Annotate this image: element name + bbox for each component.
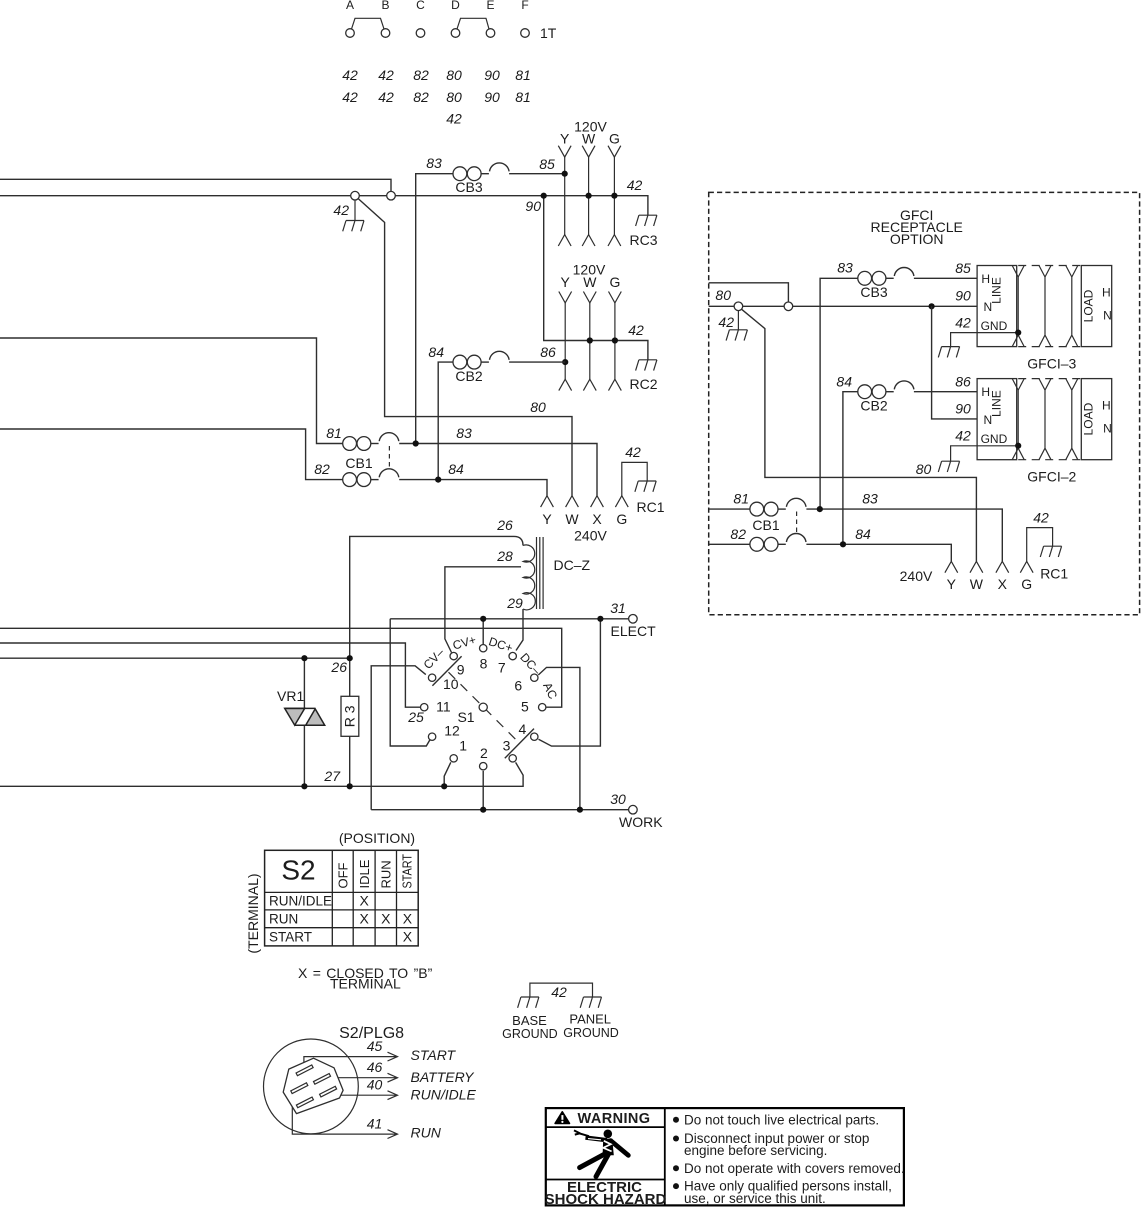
junction 86-Y RC2 bbox=[562, 359, 568, 365]
svg-text:RC1: RC1 bbox=[1040, 566, 1068, 582]
svg-text:42: 42 bbox=[718, 314, 734, 330]
ground tie 42 bbox=[502, 983, 619, 1041]
GFCI-3 receptacle block bbox=[977, 266, 1112, 347]
wire 28 tap bbox=[445, 567, 521, 653]
svg-text:E: E bbox=[486, 0, 494, 12]
svg-text:86: 86 bbox=[540, 344, 556, 360]
svg-text:C: C bbox=[416, 0, 425, 12]
svg-text:N: N bbox=[983, 413, 992, 427]
wire 31 ELECT bus bbox=[390, 618, 629, 620]
connector S2/PLG8 bbox=[264, 1025, 477, 1140]
shock hazard figure bbox=[604, 1130, 613, 1139]
svg-text:CB3: CB3 bbox=[455, 179, 482, 195]
svg-text:5: 5 bbox=[521, 699, 529, 715]
junction 83 bbox=[413, 440, 419, 446]
svg-text:RUN: RUN bbox=[269, 912, 298, 927]
S1 pin 8 bbox=[480, 645, 487, 652]
svg-text:Y: Y bbox=[947, 576, 957, 592]
ground RC1 (GFCI) bbox=[1040, 546, 1061, 557]
wire 90 horizontal from left edge bbox=[0, 196, 648, 216]
circuit breaker CB3 (GFCI) bbox=[858, 268, 914, 286]
svg-text:12: 12 bbox=[444, 722, 460, 738]
svg-text:W: W bbox=[582, 131, 596, 147]
svg-text:(POSITION): (POSITION) bbox=[339, 830, 415, 846]
circuit breaker CB1 pole B (GFCI) bbox=[750, 534, 806, 552]
svg-text:GROUND: GROUND bbox=[502, 1027, 558, 1041]
S1 linkage dashed bbox=[449, 672, 519, 742]
CB1 tie bar dashed (GFCI) bbox=[796, 512, 798, 534]
ground RC2 bbox=[636, 360, 657, 371]
svg-text:R 3: R 3 bbox=[342, 705, 358, 727]
wire 26 from left edge bbox=[0, 657, 350, 659]
wire 27 from left edge bbox=[0, 762, 523, 786]
svg-text:F: F bbox=[521, 0, 528, 12]
wire 86 bbox=[509, 361, 565, 363]
svg-text:H: H bbox=[1102, 286, 1111, 300]
svg-text:TERMINAL: TERMINAL bbox=[330, 976, 401, 992]
svg-text:45: 45 bbox=[367, 1038, 383, 1054]
wire 83 riser bbox=[416, 174, 453, 444]
panel ground bbox=[580, 997, 601, 1008]
wire 80 diagonal drop bbox=[358, 199, 572, 496]
wire feeder upper (GFCI) bbox=[709, 283, 789, 302]
wire 86 (GFCI) bbox=[914, 391, 977, 393]
svg-text:RC1: RC1 bbox=[637, 499, 665, 515]
junction 84 bbox=[435, 477, 441, 483]
terminal strip 1T bbox=[342, 0, 557, 127]
svg-text:1T: 1T bbox=[540, 25, 557, 41]
svg-text:CB1: CB1 bbox=[752, 517, 779, 533]
svg-text:1: 1 bbox=[459, 738, 467, 754]
ground RC3 bbox=[636, 215, 657, 226]
junction 90-W RC2 bbox=[587, 337, 593, 343]
circuit breaker CB2 bbox=[453, 351, 509, 369]
warning triangle bbox=[555, 1112, 569, 1124]
svg-text:GND: GND bbox=[981, 432, 1008, 446]
S1 pin 2 bbox=[480, 763, 487, 770]
wire 29 to pin 7 bbox=[516, 609, 523, 651]
svg-text:X: X bbox=[592, 511, 602, 527]
svg-text:90: 90 bbox=[484, 67, 500, 83]
wire 30 WORK bus bbox=[371, 809, 629, 811]
svg-text:11: 11 bbox=[436, 699, 451, 715]
svg-text:LOAD: LOAD bbox=[1082, 402, 1096, 435]
svg-text:42: 42 bbox=[378, 89, 394, 105]
svg-text:Do not operate with covers rem: Do not operate with covers removed. bbox=[684, 1161, 905, 1176]
S1 pin 7 bbox=[509, 652, 516, 659]
S1 pin 5 bbox=[539, 704, 546, 711]
S1 pin 11 bbox=[421, 704, 428, 711]
svg-text:use, or service this unit.: use, or service this unit. bbox=[684, 1191, 826, 1206]
svg-text:CB2: CB2 bbox=[860, 398, 887, 414]
svg-text:81: 81 bbox=[515, 67, 531, 83]
ground (GFCI 42) bbox=[726, 330, 747, 341]
circuit breaker CB1 pole B bbox=[343, 469, 399, 487]
svg-text:START: START bbox=[411, 1047, 457, 1063]
svg-text:42: 42 bbox=[378, 67, 394, 83]
circuit breaker CB2 (GFCI) bbox=[858, 381, 914, 399]
svg-text:25: 25 bbox=[407, 709, 424, 725]
wire 25 to pin 11 bbox=[0, 643, 421, 707]
svg-text:X: X bbox=[360, 911, 370, 927]
ground (42 near connector) bbox=[343, 221, 364, 232]
svg-text:B: B bbox=[381, 0, 389, 12]
circuit breaker CB1 pole A (GFCI) bbox=[750, 498, 806, 516]
svg-text:80: 80 bbox=[715, 287, 731, 303]
svg-text:N: N bbox=[983, 300, 992, 314]
svg-text:40: 40 bbox=[367, 1077, 383, 1093]
wire 42 G to ground bbox=[622, 462, 647, 495]
svg-text:42: 42 bbox=[1033, 510, 1049, 526]
RC3 contact W bbox=[588, 157, 590, 235]
junction 31/pin8 bbox=[480, 616, 486, 622]
wire pin 2 drop bbox=[482, 771, 484, 810]
svg-text:SHOCK HAZARD: SHOCK HAZARD bbox=[545, 1191, 667, 1208]
svg-text:42: 42 bbox=[551, 984, 567, 1000]
junction WORK/pin6 bbox=[577, 807, 583, 813]
svg-text:G: G bbox=[616, 511, 627, 527]
svg-text:GND: GND bbox=[981, 319, 1008, 333]
svg-text:engine before servicing.: engine before servicing. bbox=[684, 1143, 827, 1158]
svg-text:2: 2 bbox=[480, 745, 488, 761]
junction 90 corner bbox=[541, 193, 547, 199]
svg-text:82: 82 bbox=[314, 461, 330, 477]
svg-text:83: 83 bbox=[862, 491, 878, 507]
junction 90-G bbox=[611, 193, 617, 199]
svg-text:X: X bbox=[381, 911, 391, 927]
wire 45 bbox=[304, 1052, 398, 1067]
svg-text:DC–Z: DC–Z bbox=[554, 557, 591, 573]
wire 84 from CB1 bbox=[399, 480, 547, 496]
receptacle RC1 (GFCI) bbox=[900, 510, 1069, 593]
svg-text:27: 27 bbox=[323, 768, 341, 784]
svg-text:VR1: VR1 bbox=[277, 688, 304, 704]
S1 pin 9 bbox=[450, 652, 457, 659]
circuit breaker CB1 pole A bbox=[343, 433, 399, 451]
svg-text:X: X bbox=[998, 576, 1008, 592]
warning bullet list bbox=[673, 1112, 905, 1206]
RC3 contact Y bbox=[564, 157, 566, 235]
varistor VR1 bbox=[277, 655, 325, 789]
svg-text:LOAD: LOAD bbox=[1082, 289, 1096, 322]
svg-text:80: 80 bbox=[446, 67, 462, 83]
svg-text:30: 30 bbox=[610, 791, 626, 807]
RC1 contact G bbox=[615, 496, 628, 507]
svg-text:84: 84 bbox=[448, 461, 464, 477]
receptacle RC3 bbox=[558, 119, 657, 249]
svg-text:9: 9 bbox=[457, 661, 465, 677]
svg-text:4: 4 bbox=[519, 721, 527, 737]
svg-text:GROUND: GROUND bbox=[563, 1026, 619, 1040]
svg-text:W: W bbox=[970, 576, 984, 592]
svg-text:42: 42 bbox=[627, 177, 643, 193]
S1 contact bar 3-4 bbox=[505, 729, 534, 759]
svg-text:RUN: RUN bbox=[411, 1124, 442, 1140]
svg-text:G: G bbox=[609, 274, 620, 290]
svg-text:H: H bbox=[1102, 399, 1111, 413]
svg-text:85: 85 bbox=[539, 156, 555, 172]
wire to pin 5 bbox=[0, 628, 562, 707]
terminal 31 ELECT bbox=[629, 615, 638, 624]
junction 90-W bbox=[586, 193, 592, 199]
wire numbers row 2 bbox=[342, 89, 531, 105]
PLG8 body bbox=[283, 1058, 343, 1113]
svg-text:42: 42 bbox=[446, 111, 462, 127]
S1 pin 1 bbox=[450, 755, 457, 762]
S1 pin 10 bbox=[428, 674, 435, 681]
svg-text:RC3: RC3 bbox=[630, 232, 658, 248]
wire 80 drop to RC1 W (GFCI) bbox=[742, 309, 977, 561]
svg-text:(TERMINAL): (TERMINAL) bbox=[245, 873, 261, 953]
warning label bbox=[545, 1108, 905, 1208]
svg-text:42: 42 bbox=[333, 202, 349, 218]
svg-text:Y: Y bbox=[542, 511, 552, 527]
svg-text:BASE: BASE bbox=[512, 1013, 547, 1028]
svg-text:46: 46 bbox=[367, 1059, 383, 1075]
S1 pin 4 bbox=[531, 733, 538, 740]
S1 contact bar 9-10 bbox=[432, 656, 461, 686]
DC-Z core bbox=[537, 537, 544, 609]
svg-text:Do not touch live electrical p: Do not touch live electrical parts. bbox=[684, 1112, 879, 1127]
wire 42 G to ground (GFCI RC1) bbox=[1027, 528, 1053, 562]
svg-text:84: 84 bbox=[428, 344, 444, 360]
wire to pin 12 bbox=[390, 619, 430, 746]
svg-text:7: 7 bbox=[498, 660, 506, 676]
RC1 contact Y bbox=[541, 496, 554, 507]
svg-text:10: 10 bbox=[443, 676, 459, 692]
svg-text:42: 42 bbox=[955, 428, 971, 444]
svg-text:G: G bbox=[609, 131, 620, 147]
svg-text:OPTION: OPTION bbox=[890, 231, 944, 247]
svg-text:CB3: CB3 bbox=[860, 284, 887, 300]
svg-text:D: D bbox=[451, 0, 460, 12]
terminal 30 WORK bbox=[629, 805, 638, 814]
wire 26 riser to DC-Z bbox=[350, 536, 523, 658]
connector circle left (GFCI) bbox=[734, 302, 743, 311]
GFCI-2 receptacle block bbox=[977, 379, 1112, 460]
svg-text:Y: Y bbox=[561, 274, 571, 290]
wire 84 (GFCI) bbox=[806, 544, 951, 561]
svg-text:RC2: RC2 bbox=[630, 376, 658, 392]
svg-text:CB1: CB1 bbox=[345, 455, 372, 471]
wire 46 bbox=[330, 1073, 397, 1082]
svg-text:START: START bbox=[269, 930, 312, 945]
wire 84 riser to CB2 (GFCI) bbox=[843, 392, 858, 545]
svg-text:RUN/IDLE: RUN/IDLE bbox=[411, 1087, 477, 1103]
receptacle RC2 bbox=[559, 262, 658, 393]
RC1 contact W bbox=[566, 496, 579, 507]
svg-text:41: 41 bbox=[367, 1116, 383, 1132]
svg-text:82: 82 bbox=[730, 526, 746, 542]
svg-text:90: 90 bbox=[955, 401, 971, 417]
svg-text:83: 83 bbox=[426, 155, 442, 171]
wire pin 6 to WORK bbox=[538, 667, 580, 809]
svg-text:81: 81 bbox=[733, 491, 749, 507]
wire pin 1 drop bbox=[444, 762, 451, 786]
S1 pivot bbox=[479, 703, 487, 711]
svg-text:BATTERY: BATTERY bbox=[411, 1069, 476, 1085]
svg-text:83: 83 bbox=[456, 425, 472, 441]
S1 pin 3 bbox=[509, 755, 516, 762]
svg-text:GFCI–3: GFCI–3 bbox=[1027, 356, 1076, 372]
GFCI receptacle option box bbox=[709, 192, 1140, 614]
svg-text:42: 42 bbox=[625, 444, 641, 460]
junction 31/pin4 bbox=[597, 616, 603, 622]
connector circle node left bbox=[351, 191, 360, 200]
wire 82 (GFCI) bbox=[709, 543, 750, 545]
svg-text:85: 85 bbox=[955, 260, 971, 276]
svg-text:W: W bbox=[583, 274, 597, 290]
wire 90 drop to GFCI-2 bbox=[932, 306, 978, 419]
svg-text:80: 80 bbox=[446, 89, 462, 105]
junction 85-Y bbox=[562, 171, 568, 177]
svg-text:28: 28 bbox=[496, 548, 513, 564]
wire 83 (GFCI) bbox=[806, 509, 1002, 561]
svg-text:START: START bbox=[400, 854, 415, 889]
ground GFCI-3 bbox=[938, 347, 959, 358]
ground GFCI-2 bbox=[938, 461, 959, 472]
svg-text:80: 80 bbox=[916, 461, 932, 477]
connector circle node right bbox=[387, 191, 396, 200]
wire top feeder upper bbox=[0, 179, 391, 192]
svg-text:S1: S1 bbox=[457, 709, 474, 725]
junction 27/pin1 bbox=[441, 783, 447, 789]
RC2 contact Y bbox=[564, 303, 566, 379]
svg-text:42: 42 bbox=[342, 89, 358, 105]
svg-text:42: 42 bbox=[955, 315, 971, 331]
svg-text:IDLE: IDLE bbox=[357, 859, 372, 888]
svg-text:26: 26 bbox=[496, 517, 513, 533]
wire pin 8 drop bbox=[482, 619, 484, 645]
resistor R3 bbox=[341, 655, 359, 789]
RC1 contact X bbox=[591, 496, 604, 507]
wire 81 (GFCI) bbox=[709, 508, 750, 510]
svg-text:31: 31 bbox=[610, 600, 626, 616]
ground RC1 bbox=[635, 481, 656, 492]
svg-text:80: 80 bbox=[530, 399, 546, 415]
svg-text:42: 42 bbox=[342, 67, 358, 83]
svg-text:240V: 240V bbox=[574, 528, 607, 544]
svg-text:6: 6 bbox=[514, 677, 522, 693]
wire numbers row 1 bbox=[342, 67, 531, 83]
svg-text:N: N bbox=[1103, 422, 1112, 436]
svg-text:Y: Y bbox=[560, 131, 570, 147]
wire to pin 10 bbox=[371, 666, 426, 810]
connector circle right (GFCI) bbox=[784, 302, 793, 311]
wire 85 bbox=[509, 173, 565, 175]
wire 83 from CB1 bbox=[399, 444, 597, 496]
svg-text:X: X bbox=[403, 929, 413, 945]
S1 pin 12 bbox=[428, 733, 435, 740]
wire to pin 4 bbox=[539, 619, 601, 746]
svg-text:81: 81 bbox=[515, 89, 531, 105]
svg-text:WORK: WORK bbox=[619, 814, 663, 830]
wire 82 from left edge bbox=[0, 429, 343, 480]
svg-text:84: 84 bbox=[855, 526, 871, 542]
junction 80/N bbox=[929, 303, 935, 309]
wire 42 stub to ground bbox=[354, 200, 356, 221]
svg-text:240V: 240V bbox=[900, 568, 933, 584]
svg-text:90: 90 bbox=[484, 89, 500, 105]
svg-text:90: 90 bbox=[955, 288, 971, 304]
wire 40 bbox=[336, 1091, 397, 1100]
jumper D-E bbox=[457, 18, 489, 29]
svg-text:42: 42 bbox=[628, 322, 644, 338]
svg-text:ELECT: ELECT bbox=[611, 623, 657, 639]
svg-text:3: 3 bbox=[503, 738, 511, 754]
svg-text:A: A bbox=[346, 0, 354, 12]
svg-text:S2: S2 bbox=[281, 855, 315, 886]
svg-text:W: W bbox=[565, 511, 579, 527]
svg-text:81: 81 bbox=[326, 425, 342, 441]
svg-text:RUN: RUN bbox=[379, 860, 394, 888]
circuit breaker CB3 bbox=[453, 163, 509, 181]
wire 42 GND GFCI-2 bbox=[951, 446, 1017, 461]
svg-text:X: X bbox=[403, 911, 413, 927]
wire 80 (GFCI) bbox=[709, 305, 977, 307]
PLG8 pin slots bbox=[291, 1065, 337, 1108]
svg-text:X: X bbox=[360, 893, 370, 909]
svg-text:WARNING: WARNING bbox=[578, 1111, 651, 1127]
wire 42 stub to ground (GFCI) bbox=[737, 311, 739, 330]
svg-text:82: 82 bbox=[413, 67, 429, 83]
wire 42 GND GFCI-3 bbox=[951, 333, 1017, 347]
svg-text:PANEL: PANEL bbox=[569, 1012, 611, 1027]
wire 90 drop to RC2 bbox=[544, 196, 648, 360]
RC2 contact G bbox=[614, 303, 616, 379]
wire 84 riser to CB2 bbox=[438, 362, 453, 480]
wire 41 bbox=[292, 1093, 397, 1139]
svg-text:G: G bbox=[1021, 576, 1032, 592]
jumper A-B bbox=[352, 18, 385, 29]
inductor DC-Z coil bbox=[523, 545, 535, 610]
svg-text:84: 84 bbox=[836, 374, 852, 390]
svg-text:8: 8 bbox=[480, 655, 488, 671]
svg-text:CB2: CB2 bbox=[455, 368, 482, 384]
CB1 tie bar dashed bbox=[388, 446, 390, 468]
svg-text:N: N bbox=[1103, 309, 1112, 323]
wire 85 (GFCI) bbox=[914, 277, 977, 279]
svg-text:GFCI–2: GFCI–2 bbox=[1027, 469, 1076, 485]
rotary switch S1 bbox=[421, 633, 561, 770]
wire 81 from left edge bbox=[0, 338, 343, 444]
svg-text:86: 86 bbox=[955, 374, 971, 390]
receptacle RC1 240V bbox=[541, 444, 665, 544]
S1 pin 6 bbox=[531, 674, 538, 681]
base ground bbox=[518, 997, 539, 1008]
svg-text:RUN/IDLE: RUN/IDLE bbox=[269, 894, 332, 909]
wire 83 riser (GFCI) bbox=[820, 278, 858, 509]
svg-text:82: 82 bbox=[413, 89, 429, 105]
svg-text:OFF: OFF bbox=[335, 862, 350, 888]
junction WORK/pin2 bbox=[480, 807, 486, 813]
RC2 contact W bbox=[589, 303, 591, 379]
svg-text:29: 29 bbox=[506, 595, 523, 611]
svg-text:83: 83 bbox=[837, 260, 853, 276]
switch S2 position table bbox=[245, 830, 418, 954]
RC3 contact G bbox=[613, 157, 615, 235]
svg-text:26: 26 bbox=[330, 659, 347, 675]
junction 90-G RC2 bbox=[612, 337, 618, 343]
svg-text:90: 90 bbox=[525, 198, 541, 214]
